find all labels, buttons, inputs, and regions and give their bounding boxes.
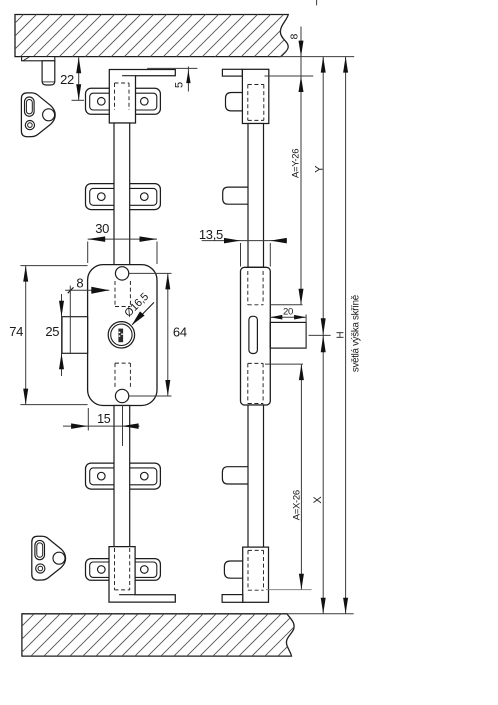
svg-text:74: 74	[9, 324, 23, 339]
svg-text:A=Y-26: A=Y-26	[291, 149, 302, 178]
svg-text:20: 20	[283, 307, 293, 318]
svg-text:H: H	[335, 332, 346, 339]
svg-text:30: 30	[95, 221, 109, 236]
svg-text:Y: Y	[313, 165, 325, 173]
svg-text:25: 25	[45, 324, 59, 339]
svg-text:8: 8	[288, 33, 300, 39]
svg-text:8: 8	[76, 275, 83, 290]
svg-text:světlá výška skříně: světlá výška skříně	[350, 294, 361, 372]
svg-text:X: X	[312, 496, 324, 504]
svg-text:13,5: 13,5	[199, 227, 223, 242]
svg-text:15: 15	[97, 412, 111, 426]
svg-text:22: 22	[60, 72, 74, 87]
svg-text:5: 5	[173, 82, 185, 88]
svg-text:A=X-26: A=X-26	[292, 490, 303, 520]
svg-text:64: 64	[173, 324, 187, 339]
